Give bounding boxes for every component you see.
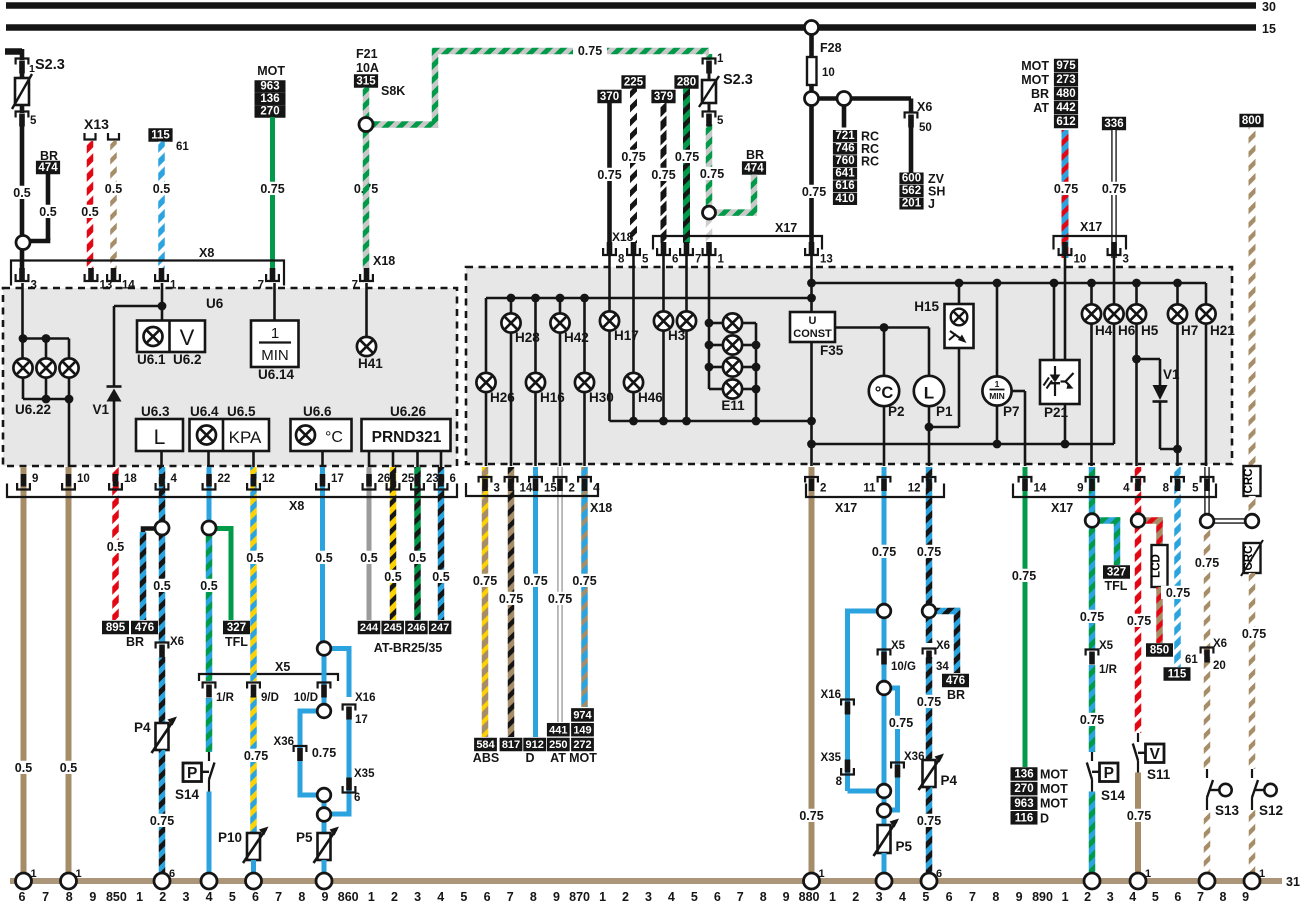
svg-text:H6: H6 — [1118, 323, 1136, 338]
svg-text:X13: X13 — [84, 116, 109, 132]
svg-text:14: 14 — [122, 280, 135, 292]
svg-text:H5: H5 — [1141, 323, 1159, 338]
svg-text:X17: X17 — [775, 221, 797, 235]
svg-text:974: 974 — [573, 709, 592, 721]
svg-text:3: 3 — [1123, 254, 1129, 266]
svg-text:612: 612 — [1056, 116, 1075, 128]
svg-text:0.75: 0.75 — [548, 592, 572, 606]
svg-text:MOT: MOT — [1021, 59, 1049, 73]
svg-text:61: 61 — [1185, 654, 1198, 666]
svg-text:8: 8 — [618, 254, 625, 266]
svg-text:0.75: 0.75 — [578, 44, 602, 58]
svg-text:6: 6 — [946, 890, 953, 904]
svg-text:P: P — [1104, 765, 1114, 782]
svg-text:641: 641 — [835, 168, 855, 180]
svg-text:X6: X6 — [1213, 638, 1227, 650]
svg-text:115: 115 — [1168, 669, 1187, 681]
svg-text:721: 721 — [835, 130, 855, 142]
svg-text:30: 30 — [1262, 0, 1276, 14]
svg-text:14: 14 — [520, 483, 533, 495]
svg-text:1: 1 — [1062, 890, 1069, 904]
svg-text:115: 115 — [151, 130, 170, 142]
svg-text:9: 9 — [1077, 483, 1083, 495]
svg-text:5: 5 — [460, 890, 467, 904]
svg-text:0.5: 0.5 — [105, 182, 122, 196]
svg-text:X18: X18 — [612, 230, 634, 244]
svg-text:410: 410 — [835, 193, 854, 205]
svg-text:6: 6 — [19, 890, 26, 904]
svg-text:912: 912 — [526, 739, 544, 751]
svg-text:2: 2 — [159, 890, 166, 904]
svg-text:4: 4 — [1129, 890, 1136, 904]
svg-text:P5: P5 — [296, 830, 313, 845]
svg-text:12: 12 — [262, 473, 275, 485]
svg-text:P4: P4 — [941, 773, 958, 788]
svg-text:34: 34 — [936, 661, 949, 673]
svg-text:U6.3: U6.3 — [141, 404, 170, 419]
svg-text:X5: X5 — [891, 640, 906, 652]
svg-text:5: 5 — [691, 890, 698, 904]
svg-text:247: 247 — [431, 622, 449, 634]
svg-text:MOT: MOT — [1040, 768, 1068, 782]
svg-text:850: 850 — [106, 890, 127, 904]
svg-text:MIN: MIN — [261, 347, 289, 364]
svg-text:X18: X18 — [590, 501, 612, 515]
svg-text:0.75: 0.75 — [675, 150, 699, 164]
svg-text:X6: X6 — [936, 640, 950, 652]
svg-text:11: 11 — [863, 483, 876, 495]
svg-text:X35: X35 — [354, 768, 375, 780]
svg-text:U6.14: U6.14 — [258, 367, 295, 382]
svg-text:8: 8 — [760, 890, 767, 904]
svg-text:BR: BR — [947, 688, 965, 702]
svg-text:H3: H3 — [668, 328, 686, 343]
svg-text:0.75: 0.75 — [572, 574, 596, 588]
svg-text:7: 7 — [969, 890, 976, 904]
svg-text:5: 5 — [642, 254, 649, 266]
svg-text:136: 136 — [1014, 769, 1033, 781]
svg-text:X17: X17 — [835, 501, 857, 515]
svg-text:0.5: 0.5 — [153, 182, 170, 196]
svg-text:562: 562 — [902, 185, 921, 197]
svg-text:P7: P7 — [1003, 404, 1020, 419]
svg-text:H15: H15 — [914, 299, 939, 314]
svg-text:U: U — [809, 315, 817, 327]
svg-text:S13: S13 — [1215, 803, 1240, 818]
svg-text:0.5: 0.5 — [13, 186, 30, 200]
svg-text:476: 476 — [946, 675, 965, 687]
svg-text:P4: P4 — [134, 720, 151, 735]
svg-text:U6.2: U6.2 — [173, 352, 202, 367]
svg-text:H17: H17 — [614, 328, 639, 343]
svg-text:S2.3: S2.3 — [723, 72, 753, 88]
svg-text:963: 963 — [260, 81, 279, 93]
svg-text:7: 7 — [507, 890, 514, 904]
svg-text:0.75: 0.75 — [260, 182, 284, 196]
svg-text:1: 1 — [717, 53, 724, 65]
svg-text:270: 270 — [260, 106, 279, 118]
svg-text:5: 5 — [717, 115, 724, 127]
svg-text:0.75: 0.75 — [597, 168, 621, 182]
svg-text:9: 9 — [322, 890, 329, 904]
svg-text:201: 201 — [902, 197, 922, 209]
svg-text:25: 25 — [402, 473, 415, 485]
svg-text:8: 8 — [836, 776, 843, 788]
svg-text:2: 2 — [1084, 890, 1091, 904]
svg-text:8: 8 — [530, 890, 537, 904]
svg-text:61: 61 — [176, 141, 189, 153]
svg-text:15: 15 — [544, 483, 557, 495]
svg-text:0.75: 0.75 — [1012, 569, 1036, 583]
svg-text:12: 12 — [908, 483, 921, 495]
svg-text:J: J — [928, 197, 935, 211]
svg-text:245: 245 — [384, 622, 402, 634]
svg-text:1: 1 — [829, 890, 836, 904]
svg-text:6: 6 — [714, 890, 721, 904]
svg-text:0.75: 0.75 — [1102, 182, 1126, 196]
svg-text:1: 1 — [718, 254, 725, 266]
svg-text:°C: °C — [325, 429, 343, 446]
svg-text:6: 6 — [484, 890, 491, 904]
svg-text:7: 7 — [352, 280, 358, 292]
svg-text:20: 20 — [1213, 660, 1226, 672]
svg-text:7: 7 — [1197, 890, 1204, 904]
svg-text:X17: X17 — [1051, 501, 1073, 515]
svg-text:7: 7 — [275, 890, 282, 904]
svg-text:149: 149 — [573, 724, 591, 736]
svg-text:X6: X6 — [170, 636, 184, 648]
svg-text:U6.5: U6.5 — [227, 404, 256, 419]
svg-text:1: 1 — [136, 890, 143, 904]
svg-text:U6.1: U6.1 — [137, 352, 166, 367]
svg-text:0.75: 0.75 — [872, 545, 896, 559]
svg-text:800: 800 — [1242, 115, 1261, 127]
svg-text:0.5: 0.5 — [81, 205, 98, 219]
svg-text:X8: X8 — [199, 246, 214, 260]
svg-text:H46: H46 — [638, 390, 663, 405]
svg-text:X18: X18 — [373, 254, 395, 268]
svg-text:584: 584 — [476, 739, 495, 751]
svg-text:H21: H21 — [1210, 323, 1235, 338]
svg-text:9: 9 — [89, 890, 96, 904]
svg-text:TFL: TFL — [1105, 579, 1128, 593]
svg-text:4: 4 — [1123, 483, 1130, 495]
svg-text:D: D — [1040, 811, 1049, 825]
svg-text:S11: S11 — [1147, 767, 1171, 782]
svg-text:1: 1 — [599, 890, 606, 904]
svg-text:MOT: MOT — [1021, 73, 1049, 87]
svg-text:0.5: 0.5 — [15, 761, 32, 775]
svg-text:850: 850 — [1150, 645, 1169, 657]
svg-text:X5: X5 — [1099, 640, 1114, 652]
svg-text:890: 890 — [1032, 890, 1053, 904]
svg-text:6: 6 — [1174, 890, 1181, 904]
svg-text:S8K: S8K — [381, 84, 405, 98]
svg-text:0.5: 0.5 — [153, 579, 170, 593]
svg-text:8: 8 — [66, 890, 73, 904]
svg-text:U6.4: U6.4 — [190, 404, 219, 419]
svg-text:860: 860 — [338, 890, 359, 904]
svg-text:336: 336 — [1104, 118, 1123, 130]
svg-text:3: 3 — [876, 890, 883, 904]
svg-text:0.75: 0.75 — [917, 695, 941, 709]
svg-text:0.5: 0.5 — [200, 579, 217, 593]
svg-text:0.75: 0.75 — [889, 716, 913, 730]
svg-text:8: 8 — [298, 890, 305, 904]
svg-text:2: 2 — [569, 483, 575, 495]
svg-text:26: 26 — [378, 473, 391, 485]
svg-text:0.75: 0.75 — [1195, 556, 1219, 570]
svg-text:0.75: 0.75 — [1127, 809, 1151, 823]
svg-text:136: 136 — [260, 93, 279, 105]
svg-text:L: L — [154, 426, 166, 449]
svg-text:3: 3 — [494, 483, 500, 495]
svg-text:U6.26: U6.26 — [390, 404, 427, 419]
svg-text:474: 474 — [744, 163, 764, 175]
svg-text:0.5: 0.5 — [60, 761, 77, 775]
svg-text:244: 244 — [360, 622, 379, 634]
svg-text:272: 272 — [573, 739, 591, 751]
svg-text:5: 5 — [922, 890, 929, 904]
svg-text:975: 975 — [1056, 60, 1076, 72]
svg-text:116: 116 — [1015, 812, 1034, 824]
svg-text:X17: X17 — [1080, 220, 1102, 234]
svg-text:0.5: 0.5 — [107, 540, 124, 554]
svg-text:5: 5 — [229, 890, 236, 904]
svg-text:0.75: 0.75 — [802, 185, 826, 199]
svg-text:9: 9 — [553, 890, 560, 904]
svg-text:CONST: CONST — [793, 328, 832, 340]
svg-text:7: 7 — [695, 254, 701, 266]
svg-text:BR: BR — [746, 148, 764, 162]
svg-text:327: 327 — [227, 622, 246, 634]
svg-text:MIN: MIN — [989, 391, 1005, 401]
svg-text:441: 441 — [549, 724, 567, 736]
svg-text:10/D: 10/D — [294, 692, 318, 704]
svg-text:10/G: 10/G — [891, 661, 916, 673]
svg-text:0.75: 0.75 — [1080, 713, 1104, 727]
svg-text:L: L — [924, 384, 934, 403]
svg-text:0.75: 0.75 — [1242, 627, 1266, 641]
svg-text:379: 379 — [654, 91, 673, 103]
svg-text:3: 3 — [31, 280, 37, 292]
svg-text:0.75: 0.75 — [499, 592, 523, 606]
svg-text:327: 327 — [1107, 567, 1126, 579]
svg-text:2: 2 — [852, 890, 859, 904]
svg-text:P: P — [187, 765, 197, 782]
svg-text:13: 13 — [820, 254, 833, 266]
svg-text:F28: F28 — [820, 41, 842, 55]
svg-text:X16: X16 — [821, 689, 841, 701]
svg-text:KPA: KPA — [229, 428, 262, 447]
svg-text:F35: F35 — [820, 343, 844, 358]
svg-text:760: 760 — [835, 155, 854, 167]
svg-text:895: 895 — [106, 622, 126, 634]
svg-text:7: 7 — [258, 280, 264, 292]
svg-text:280: 280 — [677, 77, 696, 89]
svg-text:1: 1 — [368, 890, 375, 904]
svg-text:476: 476 — [135, 622, 154, 634]
svg-text:0.75: 0.75 — [917, 814, 941, 828]
svg-text:X6: X6 — [917, 100, 932, 114]
svg-text:5: 5 — [1192, 483, 1199, 495]
svg-text:0.75: 0.75 — [917, 545, 941, 559]
svg-text:14: 14 — [1034, 483, 1047, 495]
svg-text:5: 5 — [30, 115, 37, 127]
svg-text:22: 22 — [218, 473, 231, 485]
svg-text:V1: V1 — [92, 402, 109, 417]
svg-text:870: 870 — [569, 890, 590, 904]
svg-text:10A: 10A — [356, 61, 379, 75]
svg-text:8: 8 — [1163, 483, 1170, 495]
svg-text:F21: F21 — [356, 47, 378, 61]
svg-text:2: 2 — [622, 890, 629, 904]
svg-text:315: 315 — [356, 76, 376, 88]
svg-text:°C: °C — [875, 384, 894, 402]
svg-text:0.75: 0.75 — [473, 574, 497, 588]
svg-text:0.75: 0.75 — [244, 749, 268, 763]
svg-text:9: 9 — [32, 473, 38, 485]
svg-text:17: 17 — [331, 473, 344, 485]
svg-text:17: 17 — [355, 714, 368, 726]
svg-text:H4: H4 — [1095, 323, 1113, 338]
svg-text:0.75: 0.75 — [1054, 182, 1078, 196]
svg-text:0.75: 0.75 — [700, 167, 724, 181]
svg-text:ABS: ABS — [473, 751, 499, 765]
svg-text:0.75: 0.75 — [150, 814, 174, 828]
svg-text:S14: S14 — [1101, 788, 1126, 803]
svg-text:2: 2 — [820, 483, 826, 495]
svg-text:S14: S14 — [175, 787, 200, 802]
svg-text:BR: BR — [1031, 87, 1049, 101]
svg-text:0.75: 0.75 — [1127, 614, 1151, 628]
svg-text:PRND321: PRND321 — [372, 429, 442, 446]
svg-text:6: 6 — [450, 473, 456, 485]
svg-text:2: 2 — [391, 890, 398, 904]
svg-text:7: 7 — [737, 890, 744, 904]
svg-text:18: 18 — [124, 473, 137, 485]
svg-text:23: 23 — [426, 473, 439, 485]
svg-text:0.5: 0.5 — [315, 551, 332, 565]
svg-text:3: 3 — [182, 890, 189, 904]
svg-text:31: 31 — [1286, 875, 1300, 889]
svg-text:0.75: 0.75 — [523, 574, 547, 588]
svg-text:X16: X16 — [355, 692, 375, 704]
svg-text:CRC: CRC — [1243, 546, 1255, 571]
svg-text:442: 442 — [1056, 102, 1075, 114]
svg-text:1/R: 1/R — [1099, 664, 1118, 676]
svg-text:4: 4 — [899, 890, 906, 904]
svg-text:V: V — [180, 325, 195, 350]
svg-text:9: 9 — [1016, 890, 1023, 904]
svg-text:MOT: MOT — [569, 751, 597, 765]
svg-text:963: 963 — [1014, 798, 1033, 810]
svg-text:4: 4 — [593, 483, 600, 495]
svg-text:6: 6 — [252, 890, 259, 904]
svg-text:474: 474 — [38, 162, 58, 174]
svg-text:H7: H7 — [1181, 323, 1198, 338]
svg-text:8: 8 — [992, 890, 999, 904]
svg-text:0.5: 0.5 — [409, 551, 426, 565]
svg-text:3: 3 — [414, 890, 421, 904]
svg-text:LCD: LCD — [1151, 554, 1163, 578]
svg-text:4: 4 — [206, 890, 213, 904]
svg-text:H16: H16 — [540, 390, 565, 405]
svg-text:225: 225 — [624, 77, 644, 89]
svg-text:880: 880 — [799, 890, 820, 904]
svg-text:CRC: CRC — [1243, 469, 1255, 494]
svg-text:AT-BR25/35: AT-BR25/35 — [374, 641, 443, 655]
svg-text:X5: X5 — [275, 660, 290, 674]
svg-text:0.75: 0.75 — [651, 168, 675, 182]
svg-text:1: 1 — [995, 379, 1000, 389]
svg-text:4: 4 — [437, 890, 444, 904]
svg-text:9: 9 — [783, 890, 790, 904]
svg-text:X8: X8 — [289, 499, 304, 513]
svg-text:246: 246 — [407, 622, 425, 634]
svg-text:10: 10 — [822, 67, 835, 79]
svg-text:D: D — [525, 751, 534, 765]
svg-text:V: V — [1150, 746, 1161, 763]
svg-text:P10: P10 — [218, 830, 242, 845]
svg-text:817: 817 — [502, 739, 520, 751]
svg-text:P1: P1 — [936, 404, 953, 419]
svg-text:0.75: 0.75 — [799, 809, 823, 823]
svg-text:MOT: MOT — [1040, 797, 1068, 811]
svg-text:1: 1 — [271, 325, 279, 342]
svg-text:S2.3: S2.3 — [35, 57, 65, 73]
svg-text:X36: X36 — [274, 736, 294, 748]
svg-text:0.75: 0.75 — [621, 150, 645, 164]
svg-text:0.75: 0.75 — [1080, 610, 1104, 624]
svg-text:0.5: 0.5 — [432, 570, 449, 584]
svg-text:BR: BR — [126, 635, 144, 649]
svg-text:9: 9 — [1242, 890, 1249, 904]
svg-text:370: 370 — [600, 91, 619, 103]
svg-text:AT: AT — [550, 751, 566, 765]
svg-text:0.5: 0.5 — [39, 205, 56, 219]
svg-text:600: 600 — [902, 172, 921, 184]
svg-text:TFL: TFL — [225, 635, 248, 649]
svg-text:8: 8 — [1220, 890, 1227, 904]
svg-text:10: 10 — [77, 473, 90, 485]
svg-text:0.5: 0.5 — [384, 570, 401, 584]
svg-text:10: 10 — [1074, 254, 1087, 266]
svg-text:480: 480 — [1056, 88, 1075, 100]
svg-text:15: 15 — [1262, 22, 1276, 36]
svg-text:0.5: 0.5 — [246, 551, 263, 565]
svg-text:U6.6: U6.6 — [303, 404, 332, 419]
svg-text:250: 250 — [549, 739, 567, 751]
svg-text:X35: X35 — [821, 752, 842, 764]
svg-text:P2: P2 — [888, 404, 905, 419]
svg-text:3: 3 — [1107, 890, 1114, 904]
svg-text:50: 50 — [919, 122, 932, 134]
svg-text:MOT: MOT — [257, 64, 285, 78]
svg-text:U6.22: U6.22 — [15, 402, 51, 417]
svg-text:4: 4 — [171, 473, 178, 485]
svg-text:1/R: 1/R — [216, 692, 235, 704]
svg-text:3: 3 — [645, 890, 652, 904]
svg-text:0.75: 0.75 — [1166, 586, 1190, 600]
svg-text:616: 616 — [835, 180, 854, 192]
svg-text:P5: P5 — [896, 839, 913, 854]
svg-text:MOT: MOT — [1040, 782, 1068, 796]
svg-text:0.5: 0.5 — [360, 551, 377, 565]
svg-text:6: 6 — [354, 792, 360, 804]
svg-text:S12: S12 — [1259, 803, 1283, 818]
svg-text:E11: E11 — [721, 398, 745, 413]
